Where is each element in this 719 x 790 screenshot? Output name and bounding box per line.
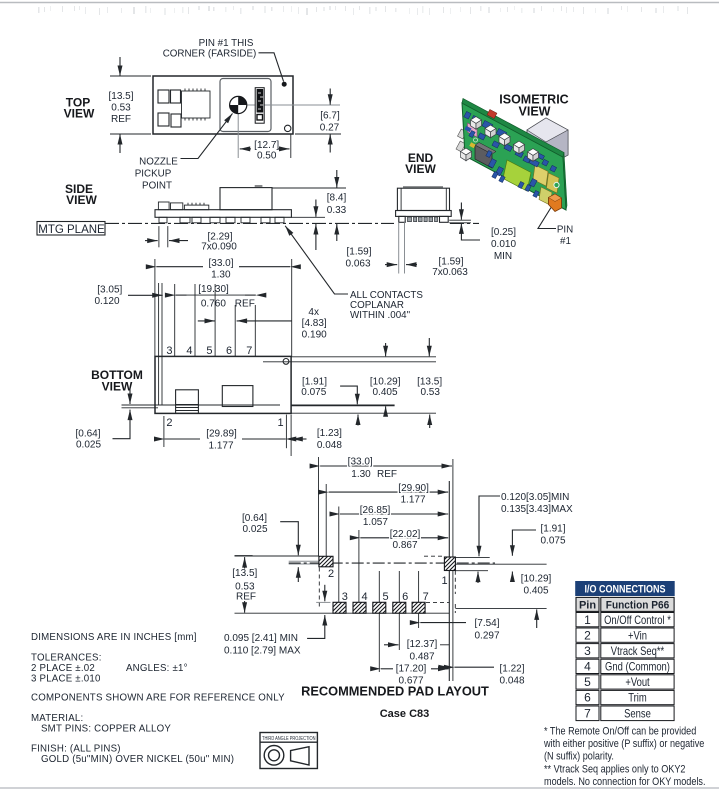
svg-text:[3.05]: [3.05]: [97, 285, 122, 296]
svg-text:4: 4: [362, 591, 368, 603]
svg-text:1: 1: [441, 575, 447, 587]
svg-text:0.867: 0.867: [392, 540, 417, 551]
svg-text:1: 1: [584, 613, 591, 627]
svg-text:[22.02]: [22.02]: [390, 529, 421, 540]
svg-text:VIEW: VIEW: [405, 162, 436, 176]
svg-text:[0.25]: [0.25]: [491, 227, 516, 238]
svg-text:7: 7: [423, 591, 429, 603]
svg-text:[33.0]: [33.0]: [208, 258, 233, 269]
svg-text:0.405: 0.405: [372, 387, 397, 398]
svg-text:[1.23]: [1.23]: [317, 428, 342, 439]
svg-text:0.190: 0.190: [302, 330, 327, 341]
svg-text:4x: 4x: [308, 307, 319, 318]
svg-text:0.075: 0.075: [301, 387, 326, 398]
svg-text:PICKUP: PICKUP: [135, 168, 172, 179]
svg-text:0.095 [2.41] MIN: 0.095 [2.41] MIN: [224, 633, 298, 644]
svg-text:[17.20]: [17.20]: [396, 664, 427, 675]
svg-text:[33.0]: [33.0]: [348, 456, 373, 467]
svg-text:[19.30]: [19.30]: [198, 284, 229, 295]
svg-text:7x0.090: 7x0.090: [201, 242, 237, 253]
svg-text:0.075: 0.075: [540, 536, 565, 547]
svg-text:0.760: 0.760: [201, 298, 226, 309]
svg-text:5: 5: [584, 675, 591, 689]
svg-text:3: 3: [584, 644, 591, 658]
svg-text:7: 7: [246, 345, 252, 357]
svg-text:0.50: 0.50: [257, 151, 277, 162]
svg-text:2: 2: [166, 417, 172, 429]
svg-text:[1.91]: [1.91]: [302, 376, 327, 387]
svg-text:CORNER (FARSIDE): CORNER (FARSIDE): [163, 49, 257, 60]
svg-text:1.057: 1.057: [363, 517, 388, 528]
svg-text:2 PLACE ±.02: 2 PLACE ±.02: [31, 663, 95, 674]
svg-text:6: 6: [226, 345, 232, 357]
svg-text:+Vin: +Vin: [628, 629, 647, 642]
svg-text:REF: REF: [236, 591, 256, 602]
svg-text:[0.64]: [0.64]: [75, 428, 100, 439]
svg-text:THIRD ANGLE PROJECTION: THIRD ANGLE PROJECTION: [262, 736, 316, 742]
svg-text:0.048: 0.048: [499, 676, 524, 687]
svg-text:I/O CONNECTIONS: I/O CONNECTIONS: [584, 584, 665, 596]
svg-text:[10.29]: [10.29]: [370, 376, 401, 387]
svg-text:Gnd (Common): Gnd (Common): [605, 661, 670, 674]
svg-text:0.33: 0.33: [327, 205, 347, 216]
svg-text:1.177: 1.177: [400, 495, 425, 506]
svg-text:[12.37]: [12.37]: [407, 639, 438, 650]
svg-text:7: 7: [584, 707, 591, 721]
svg-text:7x0.063: 7x0.063: [432, 267, 468, 278]
svg-text:PIN #1 THIS: PIN #1 THIS: [199, 38, 254, 49]
svg-text:RECOMMENDED PAD LAYOUT: RECOMMENDED PAD LAYOUT: [301, 684, 489, 699]
svg-text:REF: REF: [377, 469, 397, 480]
svg-text:0.110 [2.79] MAX: 0.110 [2.79] MAX: [224, 646, 301, 657]
svg-text:5: 5: [383, 591, 389, 603]
svg-text:* The Remote On/Off can be pro: * The Remote On/Off can be provided: [544, 725, 697, 737]
svg-text:VIEW: VIEW: [66, 193, 97, 207]
svg-text:2: 2: [584, 628, 591, 642]
svg-text:0.010: 0.010: [491, 239, 516, 250]
svg-text:MATERIAL:: MATERIAL:: [31, 713, 83, 724]
svg-text:1: 1: [278, 417, 284, 429]
svg-text:** Vtrack Seq applies only to: ** Vtrack Seq applies only to OKY2: [544, 763, 686, 775]
svg-text:0.120: 0.120: [94, 296, 119, 307]
svg-text:Sense: Sense: [624, 708, 651, 721]
svg-text:[1.22]: [1.22]: [499, 664, 524, 675]
svg-text:[13.5]: [13.5]: [108, 91, 133, 102]
svg-text:Vtrack Seq**: Vtrack Seq**: [611, 645, 664, 658]
svg-text:0.063: 0.063: [345, 259, 370, 270]
svg-text:POINT: POINT: [142, 180, 172, 191]
svg-text:[29.89]: [29.89]: [206, 429, 237, 440]
svg-text:On/Off Control *: On/Off Control *: [604, 614, 671, 627]
svg-text:0.27: 0.27: [320, 122, 340, 133]
svg-text:[12.7]: [12.7]: [254, 140, 279, 151]
svg-text:SMT PINS: COPPER ALLOY: SMT PINS: COPPER ALLOY: [41, 724, 171, 735]
svg-text:[26.85]: [26.85]: [360, 505, 391, 516]
svg-text:[8.4]: [8.4]: [327, 193, 347, 204]
svg-text:NOZZLE: NOZZLE: [139, 156, 178, 167]
svg-text:[1.59]: [1.59]: [438, 256, 463, 267]
svg-text:FINISH: (ALL PINS): FINISH: (ALL PINS): [31, 744, 121, 755]
svg-text:models. No connection for OKY: models. No connection for OKY models.: [544, 776, 706, 788]
svg-text:5: 5: [206, 345, 212, 357]
svg-text:4: 4: [584, 660, 591, 674]
svg-text:6: 6: [402, 591, 408, 603]
svg-text:VIEW: VIEW: [64, 106, 95, 120]
svg-text:0.487: 0.487: [409, 652, 434, 663]
svg-text:WITHIN .004": WITHIN .004": [350, 310, 411, 321]
svg-text:4: 4: [186, 345, 192, 357]
svg-text:[4.83]: [4.83]: [302, 318, 327, 329]
svg-text:0.025: 0.025: [76, 439, 101, 450]
svg-text:3: 3: [342, 591, 348, 603]
svg-text:[6.7]: [6.7]: [320, 111, 340, 122]
svg-text:Function P66: Function P66: [606, 599, 670, 611]
svg-text:COMPONENTS SHOWN ARE FOR REFER: COMPONENTS SHOWN ARE FOR REFERENCE ONLY: [31, 693, 285, 704]
svg-text:MTG PLANE: MTG PLANE: [38, 224, 105, 236]
svg-text:6: 6: [584, 691, 591, 705]
svg-text:MIN: MIN: [494, 251, 512, 262]
svg-text:3 PLACE ±.010: 3 PLACE ±.010: [31, 674, 101, 685]
svg-text:VIEW: VIEW: [102, 380, 133, 394]
svg-text:0.53: 0.53: [420, 387, 440, 398]
svg-text:with either positive (P suffix: with either positive (P suffix) or negat…: [543, 738, 704, 750]
svg-text:[10.29]: [10.29]: [521, 574, 552, 585]
svg-text:[1.59]: [1.59]: [346, 247, 371, 258]
svg-text:0.025: 0.025: [242, 524, 267, 535]
svg-text:REF: REF: [111, 114, 131, 125]
svg-text:ANGLES: ±1°: ANGLES: ±1°: [126, 663, 188, 674]
svg-text:Trim: Trim: [628, 692, 647, 705]
svg-text:0.405: 0.405: [523, 586, 548, 597]
svg-text:REF: REF: [235, 298, 255, 309]
svg-text:TOLERANCES:: TOLERANCES:: [31, 653, 102, 664]
svg-text:DIMENSIONS ARE IN INCHES [mm]: DIMENSIONS ARE IN INCHES [mm]: [31, 632, 197, 643]
svg-text:Case C83: Case C83: [380, 708, 430, 720]
svg-text:VIEW: VIEW: [519, 105, 551, 119]
svg-text:0.297: 0.297: [474, 631, 499, 642]
svg-text:1.177: 1.177: [208, 441, 233, 452]
svg-text:[0.64]: [0.64]: [242, 513, 267, 524]
svg-text:+Vout: +Vout: [625, 676, 649, 689]
svg-text:0.120[3.05]MIN: 0.120[3.05]MIN: [501, 492, 569, 503]
svg-text:[13.5]: [13.5]: [417, 376, 442, 387]
svg-text:Pin: Pin: [579, 600, 596, 612]
svg-text:[29.90]: [29.90]: [398, 483, 429, 494]
svg-text:[13.5]: [13.5]: [232, 568, 257, 579]
svg-text:[1.91]: [1.91]: [540, 524, 565, 535]
svg-text:0.53: 0.53: [111, 103, 131, 114]
svg-text:GOLD (5u"MIN) OVER NICKEL (50u: GOLD (5u"MIN) OVER NICKEL (50u" MIN): [41, 754, 234, 765]
svg-text:3: 3: [166, 345, 172, 357]
svg-text:#1: #1: [560, 236, 571, 247]
svg-text:0.048: 0.048: [317, 440, 342, 451]
svg-text:2: 2: [328, 568, 334, 580]
svg-text:(N suffix) polarity.: (N suffix) polarity.: [544, 751, 614, 763]
svg-text:1.30: 1.30: [351, 469, 371, 480]
svg-text:1.30: 1.30: [211, 269, 231, 280]
svg-text:[7.54]: [7.54]: [474, 618, 499, 629]
svg-text:0.135[3.43]MAX: 0.135[3.43]MAX: [501, 504, 573, 515]
svg-text:PIN: PIN: [557, 225, 573, 236]
